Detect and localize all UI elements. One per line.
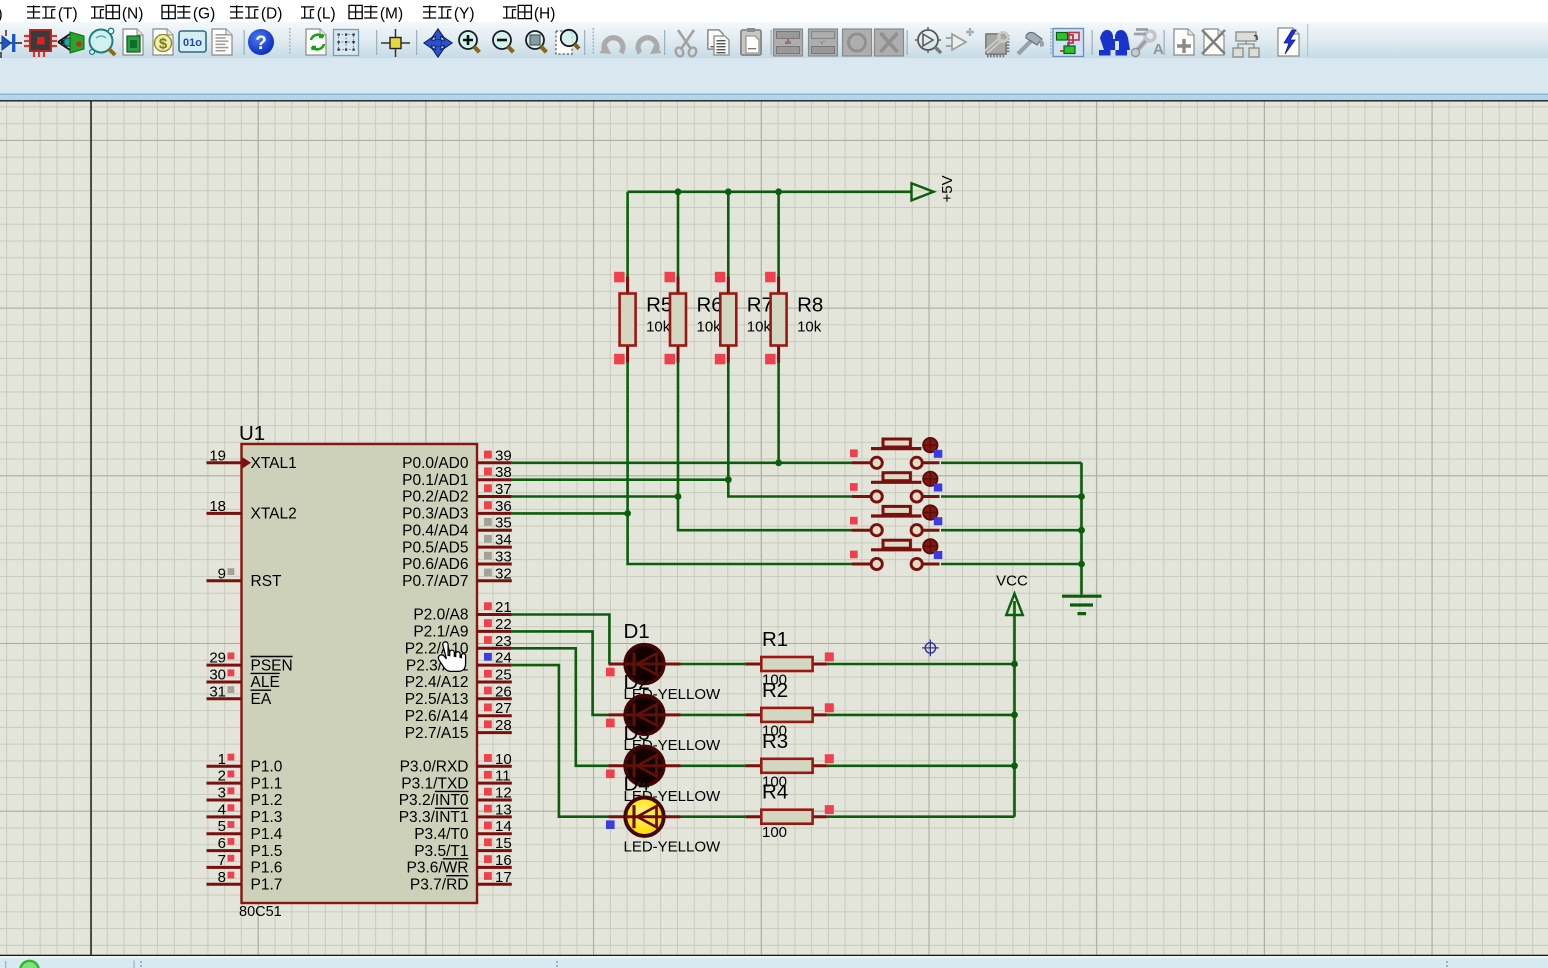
wire P2.3 to LED D4 (512, 665, 609, 817)
resistor R3 100 (745, 730, 833, 791)
wire R8 vertical to button row 1 (777, 192, 780, 463)
push button 4 (850, 539, 942, 570)
pin 16 P3.6/WR (right stub) (406, 852, 511, 877)
wire P2.0 to LED D1 (512, 615, 610, 665)
pin 17 P3.7/RD (right stub) (410, 869, 512, 894)
wire R6 vertical to button row 3 (678, 192, 852, 530)
junction P0.3/R5 (624, 510, 631, 517)
chip U1 80C51 body (242, 444, 478, 903)
pin 15 P3.5/T1 (right stub) (414, 835, 512, 860)
wire P0.2 to R6 node (512, 495, 678, 498)
pin 33 P0.6/AD6 (right stub) (402, 549, 512, 574)
wire LED D1 to R1 (681, 663, 746, 666)
pin 14 P3.4/T0 (right stub) (414, 818, 512, 843)
wire R2 to VCC rail (827, 714, 1015, 717)
wire R3 to VCC rail (827, 764, 1015, 767)
pin 7 P1.6 (left stub) (207, 852, 283, 877)
wire button 4 to ground rail (941, 563, 1082, 566)
pin 1 P1.0 (left stub) (207, 751, 283, 776)
LED D4 LED-YELLOW (606, 773, 721, 856)
pin 9 RST (left stub) (207, 565, 283, 590)
pin 23 P2.2/A10 (right stub) (405, 633, 512, 658)
junction P0.2/R6 (675, 493, 682, 500)
pin 11 P3.1/TXD (right stub) (401, 768, 512, 793)
pin 21 P2.0/A8 (right stub) (413, 599, 511, 624)
pin 34 P0.5/AD5 (right stub) (402, 532, 512, 557)
pin 31 EA (left stub) (207, 683, 272, 708)
pin 13 P3.3/INT1 (right stub) (399, 801, 512, 826)
wire P2.1 to LED D2 (512, 631, 609, 715)
toolbar (0, 24, 1308, 920)
resistor R2 100 (745, 679, 833, 740)
LED D2 LED-YELLOW (606, 671, 721, 754)
pin 18 XTAL2 (left stub) (207, 498, 297, 523)
pin 12 P3.2/INT0 (right stub) (399, 785, 512, 810)
resistor R5 10k (614, 272, 672, 365)
wire P2.2 to LED D3 (512, 648, 609, 766)
menu bar items (0, 5, 555, 23)
pin 37 P0.2/AD2 (right stub) (402, 481, 512, 506)
resistor R4 100 (745, 781, 833, 842)
resistor R7 10k (715, 272, 773, 365)
pin 4 P1.3 (left stub) (207, 801, 283, 826)
wire button 3 to ground rail (941, 529, 1082, 532)
wire P0.0 to button 1 (512, 461, 852, 464)
pin 22 P2.1/A9 (right stub) (413, 616, 511, 641)
ground symbol (1062, 596, 1102, 613)
wire R1 to VCC rail (827, 663, 1015, 666)
wire LED D3 to R3 (681, 764, 746, 767)
pin 27 P2.6/A14 (right stub) (405, 700, 512, 725)
push button 2 (850, 472, 942, 503)
pin 25 P2.4/A12 (right stub) (405, 667, 512, 692)
resistor R1 100 (745, 628, 833, 689)
pin 29 PSEN (left stub) (207, 650, 293, 675)
pin 10 P3.0/RXD (right stub) (400, 751, 512, 776)
mouse cursor (438, 642, 465, 672)
wire ground rail vertical (1080, 463, 1083, 595)
pin 28 P2.7/A15 (right stub) (405, 717, 512, 742)
LED D3 LED-YELLOW (606, 722, 721, 805)
junctions on ground rail (1078, 493, 1085, 567)
wire button 2 to ground rail (941, 495, 1082, 498)
wire R4 to VCC rail (827, 815, 1015, 818)
wire button 1 to ground rail (941, 461, 1082, 464)
pin 5 P1.4 (left stub) (207, 818, 283, 843)
origin marker (922, 640, 939, 657)
pin 30 ALE (left stub) (207, 667, 280, 692)
power +5V terminal (912, 175, 957, 202)
wire +5V rail (628, 191, 912, 194)
resistor R6 10k (665, 272, 723, 365)
pin 39 P0.0/AD0 (right stub) (402, 447, 512, 472)
pin 38 P0.1/AD1 (right stub) (402, 464, 512, 489)
pin 24 P2.3/A11 (right stub) (406, 650, 512, 675)
pin 26 P2.5/A13 (right stub) (405, 683, 512, 708)
label U1 (239, 422, 265, 445)
wire LED D4 to R4 (681, 815, 746, 818)
pin 32 P0.7/AD7 (right stub) (402, 565, 512, 590)
pin 35 P0.4/AD4 (right stub) (402, 515, 512, 540)
wire P0.3 to R5 node (512, 512, 628, 515)
wire P0.1 to R7 node (512, 478, 729, 481)
junction P0.1/R7 (725, 476, 732, 483)
junction dots on +5V rail (675, 188, 782, 195)
wire R7 vertical to button row 2 (728, 192, 852, 497)
power VCC terminal (996, 573, 1028, 616)
push button 3 (850, 505, 942, 536)
junction P0.0/R8 (775, 459, 782, 466)
pin 3 P1.2 (left stub) (207, 785, 283, 810)
pin 2 P1.1 (left stub) (207, 768, 283, 793)
push button 1 (850, 438, 942, 469)
pin 6 P1.5 (left stub) (207, 835, 283, 860)
pin 36 P0.3/AD3 (right stub) (402, 498, 512, 523)
label 80C51 (239, 904, 282, 920)
wire LED D2 to R2 (681, 714, 746, 717)
junctions on VCC rail (1011, 661, 1018, 770)
pin 8 P1.7 (left stub) (207, 869, 283, 894)
resistor R8 10k (765, 272, 823, 365)
wire R5 vertical to button row 4 (628, 192, 852, 564)
LED D1 LED-YELLOW (606, 620, 721, 703)
pin 19 XTAL1 (left stub) (207, 447, 297, 472)
wire VCC rail vertical (1013, 601, 1016, 817)
